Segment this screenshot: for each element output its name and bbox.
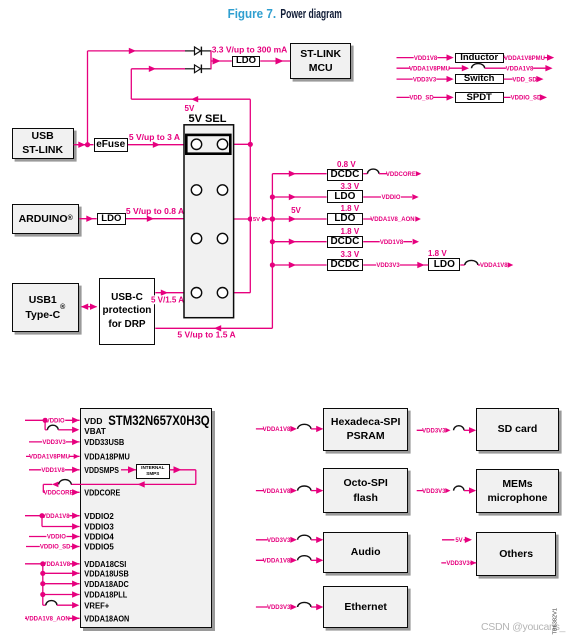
regulator U9 DCDC 3.3V [327,259,364,271]
wire/net VDD3V3 with inductor into Ethernet [256,602,324,611]
svg-text:VDDIO4: VDDIO4 [84,532,114,542]
wire/net VDDA1V8 with inductor into Hexadeca-SPI PSRAM [256,424,324,433]
label 5 V/up to 1.5 A [177,329,235,339]
svg-text:5 V/1.5 A: 5 V/1.5 A [151,296,184,305]
svg-text:3.3 V/up to 300 mA: 3.3 V/up to 300 mA [212,44,288,54]
pin VBAT [84,426,106,436]
svg-text:VDDCORE: VDDCORE [386,172,416,178]
wire eFuse to 5V SEL [128,142,184,148]
wire bus branch to DCDC2 1.8V [272,239,326,245]
node bus 5V junction [270,216,275,221]
wire VDDA1V8 vertical distribution [42,564,44,605]
svg-text:VREF+: VREF+ [84,600,109,610]
pin VDDA18USB [84,568,129,578]
svg-text:VDD3V3: VDD3V3 [267,605,291,611]
watermark [481,621,565,633]
svg-text:VDDIO_SD: VDDIO_SD [40,545,71,551]
jumper pins row 3 [191,233,227,243]
wire bus branch to LDO 1.8V [272,216,326,222]
jumper pins row 4 [191,288,227,298]
label 5 V/up to 0.8 A [126,206,184,216]
pin VDD33USB [84,437,124,447]
wire/net 5V into Others [442,537,472,545]
regulator internal SMPS [136,464,170,479]
wire/net VDDA1V8_AON into VDDA18AON pin [25,615,80,623]
wire 5V SEL jumper1 to rail A [234,143,251,145]
pin VDDA18ADC [84,579,129,589]
label 1.8 V [341,204,360,213]
svg-text:VDD3V3: VDD3V3 [376,263,400,269]
wire/net VDD3V3 with inductor into Audio [256,535,324,544]
svg-text:5 V/up to 0.8 A: 5 V/up to 0.8 A [126,206,184,216]
svg-text:VDDA18ADC: VDDA18ADC [84,579,129,589]
block MEMs microphone [476,469,559,513]
label STM32N657X0H3Q [108,413,210,428]
svg-text:VDDIO3: VDDIO3 [84,522,114,532]
label 3.3 V/up to 300 mA [212,44,288,54]
wire/net VDDIO_SD into VDDIO5 pin [26,543,80,551]
wire branch into VDDIO3 pin [42,516,80,530]
pin VDDA18PLL [84,590,127,600]
diode D2 [195,65,202,74]
jumper JP1 selected position frame [186,135,230,154]
legend row2 wire to VDDA1V8 [485,65,553,73]
wire/net VDD1V8 output [363,238,419,246]
jumper pins row 2 [191,185,227,195]
wire bus branch to DCDC1 0.8V [272,171,326,177]
svg-text:VDDIO_SD: VDDIO_SD [511,96,542,102]
regulator U6 LDO 1.8V [327,213,364,225]
pin VDD [84,416,102,426]
svg-text:5 V/up to 1.5 A: 5 V/up to 1.5 A [177,329,235,339]
wire/net VDDA1V8_AON output [363,216,421,224]
legend SPDT box [455,92,504,102]
svg-text:VDDCORE: VDDCORE [84,487,120,497]
svg-text:VDDA18USB: VDDA18USB [84,568,129,578]
block USB-C protection for DRP [99,278,156,345]
wire branch into VDDA18ADC pin [40,581,79,587]
svg-text:VDD3V3: VDD3V3 [422,489,446,495]
figure title text [228,6,342,21]
svg-text:VDDIO: VDDIO [47,535,66,541]
pin VDDA18AON [84,613,129,623]
node rail A top junction [248,142,253,147]
wire/net VDDA1V8 into VDDA18CSI pin [25,561,80,569]
block USB1 Type-C [12,283,79,332]
node VDDA1V8 junction VDDIO2 [39,513,44,518]
svg-text:VDD1V8: VDD1V8 [41,468,65,474]
wire/net VDD3V3 into VDD33USB pin [29,439,80,447]
pin VDDIO4 [84,532,114,542]
svg-text:VDDA18PLL: VDDA18PLL [84,590,127,600]
svg-text:VDDA1V8_AON: VDDA1V8_AON [25,617,69,623]
svg-text:VDDA1V8: VDDA1V8 [506,66,534,72]
label 5V above branch [291,206,301,215]
svg-text:VDDIO: VDDIO [46,419,65,425]
wire rail A vertical [249,99,251,293]
node VDDIO junction [43,418,48,423]
pin VDDCORE [84,487,120,497]
wire 5V rail to USB-C protection (source mode) [155,325,272,331]
svg-text:VDDSMPS: VDDSMPS [84,465,119,475]
IC U1 STM32N657X0H3Q [80,408,213,628]
svg-text:VDDA1V8: VDDA1V8 [263,427,291,433]
inductor L5 into VREF+ pin [43,601,80,609]
svg-text:TB6382V1: TB6382V1 [553,608,559,634]
legend row4 wire VDD_SD to SPDT [397,94,454,102]
legend row4 wire SPDT to VDDIO_SD [504,94,547,102]
label 0.8 V [337,160,356,169]
block Octo-SPI flash [323,468,408,513]
connector 5V SEL block [184,125,234,318]
node STLK_5V junction [85,142,90,147]
svg-text:5V: 5V [253,217,260,223]
svg-text:VBAT: VBAT [84,426,106,436]
svg-text:VDDIO: VDDIO [381,195,400,201]
svg-text:STM32N657X0H3Q: STM32N657X0H3Q [108,413,210,428]
label 5 V/up to 3 A [129,132,180,142]
wire ARDUINO to LDO U3 [79,216,96,222]
wire/net VDDIO output [363,194,419,202]
block USB ST-LINK [12,128,74,159]
legend row2 inductor symbol [471,64,484,69]
block ARDUINO [12,204,79,234]
svg-text:5V SEL: 5V SEL [189,113,227,125]
jumper pins row 1 [191,139,227,149]
wire distribution bus vertical [271,174,273,329]
wire/net VDDCORE into VDDCORE pin [43,489,79,497]
block Others [476,532,556,575]
pin VDDSMPS [84,465,119,475]
svg-text:VDDA1V8PMU: VDDA1V8PMU [409,66,450,72]
svg-text:VDDA1V8PMU: VDDA1V8PMU [504,56,545,62]
wire 5V rail return to diode D2 [131,66,250,103]
wire 5V SEL jumper4 to rail A [234,292,251,294]
svg-text:VDDCORE: VDDCORE [43,491,73,497]
wire/net VDDA1V8 with inductor into Octo-SPI flash [256,486,324,495]
svg-text:Power diagram: Power diagram [280,6,342,21]
pin VDDA18CSI [84,559,126,569]
eFuse F1 [94,138,128,152]
svg-text:VDD3V3: VDD3V3 [446,561,470,567]
block SD card [476,408,559,451]
svg-text:5V: 5V [455,538,462,544]
regulator U4 DCDC 0.8V [327,169,364,181]
wire diode cathode join [202,50,211,69]
op-amp U2 LDO 3.3V ST-LINK [232,56,260,66]
wire VDDSMPS pin to internal SMPS [121,466,136,473]
legend row1 wire Inductor to VDDA1V8PMU [504,54,555,62]
node bus junction row 2 [270,194,275,199]
svg-text:VDDA18PMU: VDDA18PMU [84,452,130,462]
wire/net VDD3V3 into Others [441,560,476,568]
node bus junction row 4 [270,239,275,244]
legend row3 wire VDD3V3 to Switch [397,76,454,84]
label 5 V/1.5 A [151,295,184,304]
wire/net VDDA1V8 with inductor into Audio [256,556,324,565]
wire internal SMPS output loop [43,466,196,492]
wire/net VDDA1V8PMU into VDDA18PMU pin [26,453,80,461]
label 5V SEL title [189,113,227,125]
legend Inductor box [455,53,504,63]
inductor L4 into VBAT pin [45,420,79,433]
svg-text:VDD3V3: VDD3V3 [267,538,291,544]
wire 5V SEL output to distribution bus [234,216,273,222]
node VDDA1V8 junction VDDA18CSI [40,561,45,566]
label 1.8 V [428,249,447,258]
wire bus branch to DCDC3 3.3V [272,262,326,268]
label figure id TB6382V1 rotated [553,608,559,634]
block Audio [323,532,408,574]
node bus junction row 3 [270,216,275,221]
regulator U3 LDO ARDUINO [97,213,126,225]
svg-text:VDDA18CSI: VDDA18CSI [84,559,126,569]
svg-text:VDD3V3: VDD3V3 [42,440,66,446]
label 3.3 V [341,250,360,259]
inductor L2 on LDO U7 output [460,260,506,265]
wire USB ST-LINK output to eFuse [74,142,94,148]
svg-text:VDDA1V8: VDDA1V8 [263,559,291,565]
svg-text:VDDIO2: VDDIO2 [84,511,114,521]
svg-text:VDDA1V8: VDDA1V8 [42,562,70,568]
svg-text:VDDA1V8: VDDA1V8 [42,514,70,520]
label 3.3 V [341,182,360,191]
svg-text:VDD3V3: VDD3V3 [422,429,446,435]
regulator U8 DCDC 1.8V [327,236,364,248]
pin VDDIO3 [84,522,114,532]
svg-text:Figure 7.: Figure 7. [228,6,277,21]
svg-text:5 V/up to 3 A: 5 V/up to 3 A [129,132,180,142]
wire LDO U3 to 5V SEL [126,216,184,222]
wire branch into VDDA18USB pin [40,570,79,576]
legend Switch box [455,74,504,84]
svg-text:VDD3V3: VDD3V3 [413,77,437,83]
svg-text:VDDA18AON: VDDA18AON [84,613,129,623]
wire USB-C protection to 5V SEL [155,290,184,296]
inductor L1 on DCDC1 output [363,169,414,174]
legend row3 wire Switch to VDD_SD [504,76,544,84]
wire/net VDDCORE output [386,170,421,178]
wire LDO U2 to ST-LINK MCU [260,58,290,65]
wire diode join to LDO U2 [211,58,232,65]
wire/net VDDA1V8 into VDDIO2 pin [25,512,80,520]
label 5V above 5V SEL [185,104,195,113]
svg-text:VDD_SD: VDD_SD [409,96,434,102]
svg-text:VDDA1V8PMU: VDDA1V8PMU [29,455,70,461]
wire/net VDD3V3 with inductor into MEMs microphone [417,486,477,495]
block ST-LINK MCU [290,43,351,79]
inductor L3 on SMPS loop [59,480,71,485]
svg-text:VDD1V8: VDD1V8 [414,56,438,62]
svg-text:5V: 5V [291,206,301,215]
svg-text:VDDIO5: VDDIO5 [84,542,114,552]
svg-text:VDD1V8: VDD1V8 [380,240,404,246]
block Hexadeca-SPI PSRAM [323,408,408,451]
regulator U5 LDO 3.3V [327,190,364,202]
label 5V on output wire [252,216,261,223]
svg-text:VDDA1V8: VDDA1V8 [480,263,508,269]
wire STLK_5V up to diode D1 [88,48,195,145]
svg-text:VDD_SD: VDD_SD [512,77,537,83]
svg-text:VDD: VDD [84,416,102,426]
pin VDDIO2 [84,511,114,521]
svg-text:VDDA1V8: VDDA1V8 [263,489,291,495]
legend row1 wire VDD1V8 to Inductor [397,54,454,62]
wire/net VDD3V3 with inductor into SD card [417,426,477,435]
legend row2 wire VDDA1V8PMU input [397,65,470,73]
regulator U7 LDO 1.8V output [428,258,460,271]
svg-text:VDDA1V8_AON: VDDA1V8_AON [370,217,414,223]
wire/net VDD3V3 to LDO U7 [363,262,428,270]
wire/net VDD1V8 into VDDSMPS pin [29,467,80,475]
pin VDDA18PMU [84,452,130,462]
wire/net VDDIO into VDDIO4 pin [29,533,80,541]
label 1.8 V [341,227,360,236]
node bus junction row 5 [270,262,275,267]
wire branch into VDDA18PLL pin [40,591,79,597]
block Ethernet [323,586,408,629]
pin VDDIO5 [84,542,114,552]
svg-text:VDD33USB: VDD33USB [84,437,124,447]
wire bus branch to LDO 3.3V [272,194,326,200]
wire USB1 Type-C to USB-C protection (bidirectional) [81,304,97,310]
diode D1 [195,47,202,56]
wire/net VDDA1V8 output [480,262,513,270]
wire/net VDDIO into VDD pin [25,417,80,425]
node rail A 5V junction [248,216,253,221]
pin VREF+ [84,600,109,610]
